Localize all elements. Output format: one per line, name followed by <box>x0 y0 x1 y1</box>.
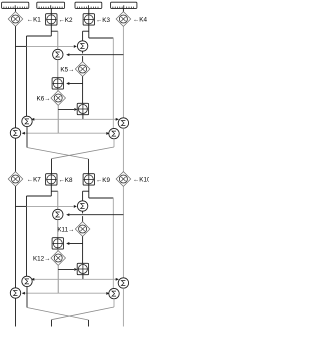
wire to adder A (black part) <box>16 205 27 207</box>
adder D2 <box>118 278 128 288</box>
wire K4 output rail <box>122 26 124 117</box>
tap bus wire <box>32 118 119 120</box>
wire crossover output (cut) <box>51 320 53 327</box>
svg-text:←K1: ←K1 <box>27 16 41 23</box>
arrow into adder A <box>74 205 77 208</box>
wire K11 branch to S1 <box>68 243 82 245</box>
wire K6 output down <box>57 105 59 133</box>
crossover diagonal F to left <box>52 147 115 159</box>
multiplier S21 (square) <box>77 103 88 114</box>
arrow into end adder D <box>116 278 119 281</box>
svg-text:←K3: ←K3 <box>96 17 110 24</box>
stub register X2 to K2 <box>50 8 52 13</box>
wire crossover output (cut) <box>88 320 90 327</box>
adder A1 <box>77 41 87 51</box>
wire S1 to K6 multiplier <box>57 89 59 91</box>
arrow into adder S1 <box>66 242 69 245</box>
wire K12 branch to S2 <box>58 268 74 270</box>
svg-text:K6→: K6→ <box>37 95 51 102</box>
inner-right rail <box>112 198 114 288</box>
wire into next stage (left square) <box>51 159 53 174</box>
wire adder F output down <box>113 299 115 307</box>
adder D1 <box>118 118 128 128</box>
arrow into end adder C <box>31 118 34 121</box>
svg-text:K11→: K11→ <box>57 226 74 233</box>
arrow into end adder D <box>116 118 119 121</box>
adder C1 <box>22 116 32 126</box>
crossover diagonal F to left <box>52 307 115 320</box>
wire K2 jog right <box>51 30 58 32</box>
crossover diagonal C to right <box>27 308 89 321</box>
arrow into adder B <box>66 53 69 56</box>
multiplier K8 (square) <box>46 174 57 185</box>
wire adder A to multiplier (below crossing) <box>82 216 84 222</box>
adder E2 <box>10 288 20 298</box>
wire K9 to inner-right rail <box>89 197 114 199</box>
multiplier K12 (diamond) <box>51 251 66 266</box>
wire K8 to inner-left rail <box>27 195 52 197</box>
multiplier K3 (square) <box>83 14 94 25</box>
wire K2 output down <box>50 25 52 36</box>
arrow into end adder F <box>106 292 109 295</box>
wire adder D output (to next stage) <box>122 128 124 171</box>
adder F1 <box>109 128 119 138</box>
wire K2 to inner-left rail <box>27 35 52 37</box>
wire K3 to inner-right rail <box>89 37 114 39</box>
wire adder E output (cut) <box>15 298 17 326</box>
arrow into adder S2 <box>74 108 77 111</box>
inner-left rail <box>26 36 28 116</box>
stub register X1 to K1 <box>15 8 17 11</box>
wire right rail to adder B <box>68 214 123 216</box>
arrow into adder A <box>74 45 77 48</box>
tap bus wire <box>32 278 119 280</box>
stub register X4 to K4 <box>122 8 124 11</box>
adder E1 <box>10 128 20 138</box>
svg-text:←K4: ←K4 <box>133 16 147 23</box>
wire adder E output (to next stage) <box>15 138 17 171</box>
multiplier S22 (square) <box>77 263 88 274</box>
svg-text:←K10: ←K10 <box>133 176 149 183</box>
wire K7 output rail <box>15 186 17 287</box>
wire to adder A (long gray) <box>27 205 74 207</box>
wire adder B down to adder S1 <box>57 60 59 78</box>
wire down to adder A <box>82 191 84 201</box>
wire down to adder B <box>57 191 59 209</box>
arrow into adder B <box>66 213 69 216</box>
multiplier K6 (diamond) <box>51 91 66 106</box>
wire K12 output down <box>57 265 59 293</box>
signal register X3 <box>75 2 102 8</box>
wire into next stage (right square) <box>88 159 90 174</box>
multiplier S11 (square) <box>52 78 63 89</box>
adder C2 <box>22 276 32 286</box>
wire K1 output rail <box>15 26 17 127</box>
adder B1 <box>53 49 63 59</box>
svg-text:←K9: ←K9 <box>96 177 110 184</box>
wire K11 output down to S2 <box>82 236 84 263</box>
wire K5 output down to S2 <box>82 76 84 103</box>
multiplier K10 (diamond) <box>116 172 131 187</box>
wire adder C output down <box>26 127 28 148</box>
arrow into end adder C <box>31 278 34 281</box>
arrow into end adder E <box>22 132 25 135</box>
signal register X1 <box>2 2 29 8</box>
wire adder F output down <box>113 139 115 147</box>
arrow into adder S2 <box>74 268 77 271</box>
wire to adder A (black part) <box>16 45 27 47</box>
wire K6 branch to S2 <box>58 108 74 110</box>
multiplier S12 (square) <box>52 238 63 249</box>
wire K5 branch to S1 <box>68 83 82 85</box>
arrow into end adder F <box>106 132 109 135</box>
multiplier K9 (square) <box>83 174 94 185</box>
crossover diagonal C to right <box>27 148 89 160</box>
arrow into adder S1 <box>66 82 69 85</box>
wire adder A to multiplier <box>82 51 84 53</box>
wire K8 jog right <box>51 190 58 192</box>
wire K3 output down <box>88 25 90 38</box>
adder A2 <box>77 201 87 211</box>
adder B2 <box>53 209 63 219</box>
wire down to adder B <box>57 31 59 49</box>
wire K10 output rail <box>122 186 124 277</box>
signal register X2 <box>37 2 65 8</box>
svg-text:←K2: ←K2 <box>59 17 73 24</box>
wire right rail to adder B <box>68 54 123 56</box>
wire to adder A (long gray) <box>27 45 74 47</box>
wire K9 jog left <box>83 190 89 192</box>
svg-text:←K8: ←K8 <box>59 177 73 184</box>
multiplier K1 (diamond) <box>8 12 23 27</box>
wire S2 output to bus <box>82 275 84 280</box>
multiplier K5 (diamond) <box>75 62 90 77</box>
wire S2 output to bus <box>82 115 84 120</box>
signal register X4 <box>111 2 137 8</box>
multiplier K4 (diamond) <box>116 12 131 27</box>
wire adder D output (cut) <box>122 288 124 326</box>
svg-text:K5→: K5→ <box>60 66 74 73</box>
wire adder A to multiplier (below crossing) <box>82 56 84 62</box>
wire K3 jog left <box>83 30 89 32</box>
wire K8 output down <box>50 185 52 196</box>
wire S1 to K6 multiplier <box>57 249 59 251</box>
wire K9 output down <box>88 185 90 198</box>
adder F2 <box>109 288 119 298</box>
wire down to adder A <box>82 31 84 41</box>
inner-left rail <box>26 196 28 276</box>
arrow into end adder E <box>22 292 25 295</box>
svg-text:←K7: ←K7 <box>27 176 41 183</box>
svg-text:K12→: K12→ <box>33 255 51 262</box>
cross feed wire <box>22 292 109 294</box>
wire adder C output down <box>26 287 28 308</box>
cross feed wire <box>22 132 109 134</box>
multiplier K7 (diamond) <box>8 172 23 187</box>
stub register X3 to K3 <box>88 8 90 13</box>
wire adder A to multiplier <box>82 211 84 213</box>
inner-right rail <box>112 38 114 128</box>
multiplier K11 (diamond) <box>75 222 90 237</box>
wire adder B down to adder S1 <box>57 220 59 238</box>
multiplier K2 (square) <box>46 14 57 25</box>
